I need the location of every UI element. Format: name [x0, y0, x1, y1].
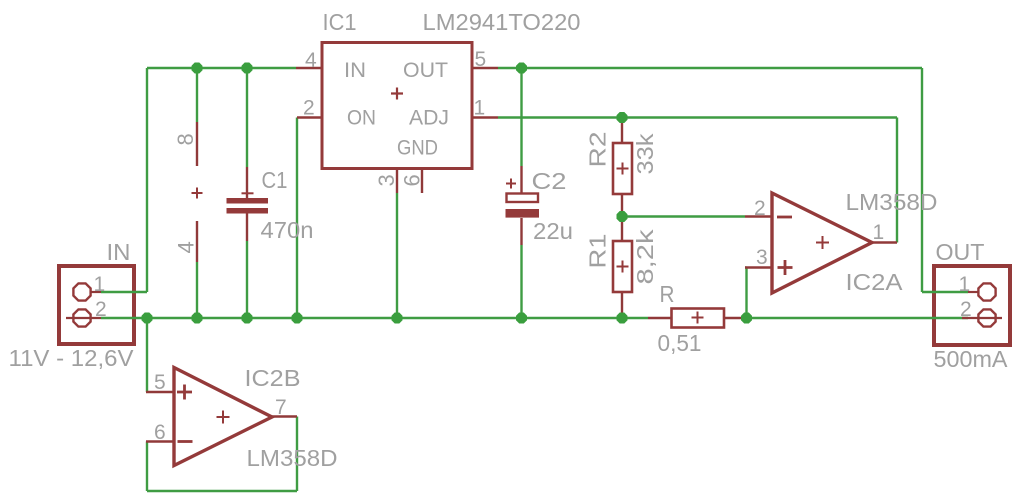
wire GND bus left section [147, 317, 648, 319]
label C2 value 22u [533, 218, 573, 244]
capacitor C2 plates (polarized) [506, 179, 540, 218]
IC2 power pin 8 stub [196, 122, 198, 166]
wire GND bus right section to OUT pin2 [746, 317, 968, 319]
label R2 value 33k (rotated) [632, 133, 658, 175]
junction bus / R right / IC2A pin3 [741, 313, 752, 324]
wire ADJ feedback horizontal [498, 116, 897, 118]
svg-text:6: 6 [154, 421, 166, 444]
svg-text:8,2k: 8,2k [632, 229, 658, 285]
label connector OUT [936, 239, 985, 265]
X1 IN pin 1 pad [73, 283, 90, 300]
IC2A pin 3 stub [745, 266, 772, 268]
wire IC2A pin3 horizontal [745, 266, 747, 268]
IC2 power pin 4 number (rotated) [174, 241, 199, 253]
svg-text:2: 2 [95, 298, 107, 321]
wire into OUT pin1 [922, 291, 968, 293]
IC1 pin 2 number [303, 97, 315, 120]
svg-text:IN: IN [344, 59, 366, 82]
resistor R1 body [613, 241, 632, 292]
resistor R2 body [613, 143, 632, 194]
label R1 name (rotated) [585, 234, 611, 269]
label IC1 value LM2941TO220 [423, 9, 581, 35]
wire IC2B feedback bottom [147, 490, 297, 492]
X2 pin 1 number [959, 273, 971, 296]
junction V+ rail / power pin8 [192, 63, 203, 74]
svg-text:5: 5 [475, 48, 487, 71]
label C1 value 470n [261, 217, 314, 243]
IC1 pin 4 stub [296, 67, 322, 69]
IC2A pin 2 stub [745, 215, 772, 217]
wire bus junction down to IC2B pin5 [146, 318, 148, 392]
svg-text:1: 1 [873, 221, 885, 244]
IC2B pin 6 stub [146, 440, 174, 442]
svg-text:470n: 470n [261, 217, 314, 243]
C1 top stub [246, 167, 248, 199]
junction bus / ON wire [292, 313, 303, 324]
label OUT current 500mA [934, 346, 1009, 372]
label IC2B name [245, 365, 301, 391]
R2 top stub [621, 119, 623, 143]
junction V+ rail / C1 [242, 63, 253, 74]
R1 top stub [621, 217, 623, 242]
svg-text:ON: ON [347, 107, 376, 130]
wire V+ rail top-left (IN pin1 to IC1 pin4) [147, 67, 296, 69]
IC2A pin 1 output stub [872, 241, 897, 243]
wire C2 bottom [520, 245, 522, 318]
X1 pin 2 number [95, 298, 107, 321]
IC2B pin 7 number [275, 396, 287, 419]
IC1 pin 6 number (rotated) [400, 174, 425, 186]
svg-text:2: 2 [303, 97, 315, 120]
junction ADJ wire / R2 top [617, 112, 628, 123]
X2 pin 2 number [960, 298, 972, 321]
wire right rail vertical down [921, 68, 923, 292]
label R name [660, 281, 675, 307]
X1 IN pin 2 pad [66, 309, 101, 326]
label C2 name [532, 168, 567, 194]
svg-text:7: 7 [275, 396, 287, 419]
wire bus to IC2A pin3 vertical [745, 268, 747, 319]
svg-text:C1: C1 [262, 167, 288, 193]
label R1 value 8,2k (rotated) [632, 229, 658, 285]
svg-text:6: 6 [400, 174, 425, 186]
connector X2 OUT box [934, 266, 1010, 345]
svg-text:R: R [660, 281, 675, 307]
IC1 pin name ON [347, 107, 376, 130]
R1 bottom stub [621, 292, 623, 318]
svg-text:R2: R2 [585, 132, 611, 168]
IC2B pin 6 number [154, 421, 166, 444]
IC1 pin 5 number [475, 48, 487, 71]
IC2B pin 7 output stub [272, 415, 297, 417]
R left stub [648, 317, 672, 319]
IC2B pin 5 number [154, 371, 166, 394]
op-amp IC2B triangle [174, 368, 272, 466]
IC1 pin 3 GND stub [396, 169, 398, 194]
IC2A pin 3 number [756, 246, 768, 269]
label C1 name [262, 167, 288, 193]
wire ADJ feedback vertical to IC2A output [896, 118, 898, 243]
wire R1/R2 node to IC2A pin2 [622, 215, 745, 217]
wire V+ rail top-right (IC1 pin5 to corner) [498, 67, 922, 69]
junction R2/R1 node [617, 211, 628, 222]
wire C1 top [246, 68, 248, 167]
svg-text:500mA: 500mA [934, 346, 1009, 372]
svg-text:LM2941TO220: LM2941TO220 [423, 9, 581, 35]
IC2A pin 1 number [873, 221, 885, 244]
IC1 LM2941 box [322, 43, 472, 169]
IC1 pin 4 number [305, 49, 317, 72]
IC1 pin name IN [344, 59, 366, 82]
IC1 pin name OUT [403, 59, 448, 82]
resistor R body [672, 309, 725, 328]
svg-text:IC2B: IC2B [245, 365, 301, 391]
wire IC2B pin6 down [146, 442, 148, 492]
label IC2A value LM358D [846, 189, 938, 215]
junction IN pin2 / bus / IC2B [142, 313, 153, 324]
IC2A pin 2 number [754, 197, 766, 220]
svg-text:1: 1 [94, 273, 106, 296]
IC1 pin 5 stub [472, 67, 498, 69]
op-amp IC2A triangle [772, 193, 872, 293]
IC1 pin 1 stub [472, 116, 498, 118]
svg-text:4: 4 [174, 241, 199, 253]
X1 IN pin 1 stub [91, 291, 101, 293]
label IC2A name [846, 269, 904, 295]
svg-text:0,51: 0,51 [658, 330, 702, 356]
R right stub [724, 317, 747, 319]
svg-text:1: 1 [474, 97, 486, 120]
wire C2 top [520, 68, 522, 166]
wire IC1 GND pin3 to bus [396, 193, 398, 318]
X2 OUT pin 2 pad [962, 309, 1002, 326]
svg-text:22u: 22u [533, 218, 573, 244]
svg-text:IC2A: IC2A [846, 269, 904, 295]
capacitor C1 plates [227, 193, 269, 213]
IC1 pin name ADJ [409, 107, 449, 130]
connector X1 IN box [59, 266, 134, 344]
svg-text:LM358D: LM358D [247, 445, 338, 471]
junction bus / C2 [516, 313, 527, 324]
IC1 pin 1 number [474, 97, 486, 120]
X2 OUT pin 1 pad [968, 283, 996, 300]
X1 pin 1 number [94, 273, 106, 296]
wire IN pin1 horizontal [101, 291, 147, 293]
C2 top stub [520, 166, 522, 199]
wire IN pin2 horizontal [101, 317, 147, 319]
IC1 pin 3 number (rotated) [374, 174, 399, 186]
svg-text:8: 8 [173, 133, 198, 145]
svg-text:LM358D: LM358D [846, 189, 938, 215]
IC1 pin name GND [397, 137, 438, 160]
wire vertical from top rail down to IN pin 1 [146, 68, 148, 292]
svg-text:ADJ: ADJ [409, 107, 449, 130]
C2 bottom stub [520, 218, 522, 245]
svg-text:OUT: OUT [936, 239, 985, 265]
IC2B pin 5 stub [146, 391, 174, 393]
IC1 pin 6 GND stub (unconnected) [421, 169, 423, 194]
junction bus / power pin4 [192, 313, 203, 324]
svg-text:GND: GND [397, 137, 438, 160]
svg-text:IN: IN [107, 239, 131, 265]
IC1 pin 2 stub [297, 116, 322, 118]
svg-text:3: 3 [374, 174, 399, 186]
svg-text:33k: 33k [632, 133, 658, 175]
svg-text:OUT: OUT [403, 59, 448, 82]
svg-text:1: 1 [959, 273, 971, 296]
junction bus / IC1 GND [392, 313, 403, 324]
op-amp power gate plus symbol [192, 188, 203, 199]
label IC1 name [323, 9, 357, 35]
junction bus / R1 [617, 313, 628, 324]
svg-text:3: 3 [756, 246, 768, 269]
IC2 power pin 4 stub [196, 221, 198, 262]
label IN voltage 11V - 12,6V [9, 345, 135, 371]
C1 bottom stub [246, 213, 248, 241]
svg-text:2: 2 [960, 298, 972, 321]
wire op-amp power pin4 bottom [196, 262, 198, 318]
svg-text:R1: R1 [585, 234, 611, 269]
label R value 0,51 [658, 330, 702, 356]
label IC2B value LM358D [247, 445, 338, 471]
wire IC1 ON pin to bus [296, 118, 298, 319]
svg-text:11V - 12,6V: 11V - 12,6V [9, 345, 135, 371]
svg-text:5: 5 [154, 371, 166, 394]
svg-text:IC1: IC1 [323, 9, 357, 35]
junction OUT rail / C2 [516, 63, 527, 74]
label R2 name (rotated) [585, 132, 611, 168]
wire IC2B feedback up to pin7 [296, 417, 298, 492]
label connector IN [107, 239, 131, 265]
junction bus / C1 [242, 313, 253, 324]
wire C1 bottom [246, 241, 248, 318]
wire op-amp power pin8 top [196, 68, 198, 122]
R2 bottom stub [621, 194, 623, 217]
svg-text:4: 4 [305, 49, 317, 72]
svg-text:2: 2 [754, 197, 766, 220]
svg-text:C2: C2 [532, 168, 567, 194]
IC2 power pin 8 number (rotated) [173, 133, 198, 145]
